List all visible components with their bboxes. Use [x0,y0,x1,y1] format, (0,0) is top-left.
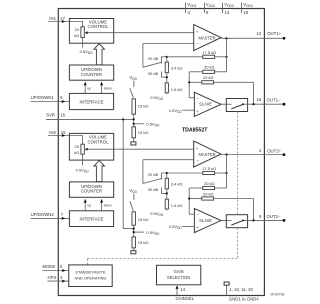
block VOLUME CONTROL 2 [69,133,113,160]
svg-text:kΩ: kΩ [74,33,79,38]
op-amp SLAVE 2 [194,209,221,233]
pin UP/DOWN1 (6) wire [31,95,70,103]
svg-text:SELECTION: SELECTION [167,275,190,280]
svg-text:1, 10, 11, 20: 1, 10, 11, 20 [229,287,253,292]
label TDA8552T [182,127,208,133]
wire master2 inverting input [143,160,194,184]
resistor 20 kOhm ch2 (slave input) [189,181,226,190]
pin IN1 (17) wire [48,16,83,27]
wire slave1 + input 0.5VDD [169,108,195,114]
wire slave2 inverting input [188,188,194,214]
svg-text:16: 16 [60,112,65,117]
arrow up (interface1 to counter1) [84,82,91,93]
wire output node down ch1 [226,38,228,72]
svg-text:20: 20 [75,27,80,32]
svg-text:GAIN: GAIN [174,269,184,274]
contact 20 dB ch1 [148,56,167,64]
svg-text:OUT1−: OUT1− [267,97,281,102]
block GAIN SELECTION [157,265,201,285]
resistor 1.6 kOhm ch1 [150,83,182,101]
resistor 3.4 kOhm ch2 [165,172,182,189]
svg-text:15 kΩ: 15 kΩ [138,240,149,245]
svg-text:20 kΩ: 20 kΩ [203,191,214,196]
pin GAINSEL (14) [176,285,195,301]
svg-text:down: down [104,86,112,90]
hollow arrow counter1 to volume1 [94,44,105,65]
svg-text:MGM788: MGM788 [270,293,284,297]
op-amp MASTER 2 [194,141,221,167]
svg-text:STANDBY/MUTE: STANDBY/MUTE [75,270,106,275]
svg-text:15 kΩ: 15 kΩ [138,104,149,109]
op-amp MASTER 1 [194,25,221,51]
drawing code [270,293,284,297]
svg-text:SLAVE: SLAVE [199,102,212,107]
svg-text:HPS: HPS [48,275,57,280]
svg-text:IN2: IN2 [49,130,56,135]
gain switch blade ch2 [143,179,161,184]
svg-text:COUNTER: COUNTER [81,72,102,77]
VDD supply switch (channel 1 reference) [129,75,137,98]
svg-text:12: 12 [256,31,261,36]
ground (ch1 divider) [131,138,136,145]
svg-text:INTERFACE: INTERFACE [79,217,103,222]
svg-text:15: 15 [61,130,66,135]
arrow down (interface1 to counter1) [100,82,112,93]
dashed control line mute switches [88,112,238,265]
pin GND1 to GND4 (1,10,11,20) [224,282,259,301]
potentiometer 20 kOhm (volume 2) [74,144,88,155]
wire pot2 wiper to master2 + input [87,148,194,150]
svg-text:30 dB: 30 dB [148,71,159,76]
svg-text:17.5 kΩ: 17.5 kΩ [202,50,216,55]
svg-text:GND1 to GND4: GND1 to GND4 [229,296,259,301]
svg-text:COUNTER: COUNTER [81,189,102,194]
potentiometer 20 kOhm (volume 1) [74,27,88,38]
resistor 1.6 kOhm ch2 [150,199,182,217]
pin IN2 (15) wire [48,130,83,144]
svg-text:20 kΩ: 20 kΩ [204,181,215,186]
svg-text:down: down [104,204,112,208]
block STANDBY/MUTE AND OPERATING [69,265,112,287]
svg-text:kΩ: kΩ [74,150,79,155]
svg-text:UP/DOWN2: UP/DOWN2 [31,212,55,217]
arrow down (interface2 to counter2) [100,199,112,211]
wire slave2 + input 0.5VDD [169,224,195,230]
wire master2 output to OUT2+ [221,148,285,156]
svg-text:30 dB: 30 dB [148,187,159,192]
svg-text:OUT1+: OUT1+ [267,31,281,36]
svg-text:20 kΩ: 20 kΩ [204,65,215,70]
wire to OUT2- [248,214,286,222]
svg-text:SLAVE: SLAVE [199,218,212,223]
resistor 3.4 kOhm ch1 [165,56,182,73]
resistor 17.5 kOhm ch2 feedback [167,166,228,175]
gain switch blade ch1 [143,62,161,67]
wire output node down ch2 [226,155,228,189]
svg-text:1.6 kΩ: 1.6 kΩ [171,87,183,92]
svg-text:SVR: SVR [46,112,55,117]
pin VDD2 (8) [205,2,216,15]
mute switch box ch1 [221,99,248,112]
block INTERFACE 2 [69,211,113,227]
svg-text:20 dB: 20 dB [148,56,159,61]
pin VDD3 (13) [223,2,234,15]
wire pot1 bottom to 0.5VDD [80,38,94,55]
resistor 15 kOhm (ch1 upper) [132,99,148,114]
pin MODE (5) wire [43,264,69,272]
resistor 15 kOhm (ch1 lower) [132,127,148,138]
chip outline TDA8552T [58,9,264,296]
svg-text:15 kΩ: 15 kΩ [138,217,149,222]
pin VDD1 (3) [186,2,197,15]
wire master1 output to OUT1+ [221,31,285,40]
svg-text:17: 17 [60,16,65,21]
node ch2 0.5VDD junction [133,225,160,237]
svg-text:20 kΩ: 20 kΩ [203,75,214,80]
hollow arrow counter2 to volume2 [94,161,105,182]
svg-text:INTERFACE: INTERFACE [79,100,103,105]
pin HPS (4) wire [48,275,69,283]
wire master1 inverting input [143,44,194,68]
resistor 15 kOhm (ch2 lower) [132,237,148,248]
svg-text:MASTER: MASTER [198,35,215,40]
svg-text:1.6 kΩ: 1.6 kΩ [171,203,183,208]
pin UP/DOWN2 (7) wire [31,212,70,220]
svg-text:GAINSEL: GAINSEL [176,296,195,301]
svg-text:18: 18 [244,10,249,15]
contact 30 dB ch2 [148,187,167,193]
node ch2 gain mid [166,189,168,199]
wire pot2 bottom to 0.5VDD [76,154,90,173]
svg-text:CONTROL: CONTROL [87,24,109,29]
mute switch box ch2 [221,215,248,228]
svg-text:MODE: MODE [43,264,56,269]
wire to OUT1- [248,97,286,105]
svg-text:20: 20 [75,144,80,149]
pin SVR (16) wire [46,112,134,119]
block UP/DOWN COUNTER 2 [69,182,113,197]
svg-text:IN1: IN1 [49,16,56,21]
pin VDD4 (18) [242,2,253,15]
svg-text:17.5 kΩ: 17.5 kΩ [202,166,216,171]
ground (ch2 divider) [131,248,136,254]
svg-text:3.4 kΩ: 3.4 kΩ [171,182,183,187]
contact 30 dB ch1 [148,71,167,77]
resistor 20 kOhm ch1 (slave input) [189,65,226,74]
node SVR junction [122,114,160,127]
svg-text:AND OPERATING: AND OPERATING [75,275,107,280]
resistor 20 kOhm ch2 (slave feedback) [189,191,253,220]
wire pot1 wiper to master1 + input [87,32,194,34]
resistor 17.5 kOhm ch1 feedback [167,50,228,59]
svg-text:UP/DOWN1: UP/DOWN1 [31,95,55,100]
svg-text:3.4 kΩ: 3.4 kΩ [171,65,183,70]
block INTERFACE 1 [69,93,113,109]
svg-text:15 kΩ: 15 kΩ [138,130,149,135]
svg-text:up: up [87,204,91,208]
resistor 15 kOhm (ch2 upper) [132,212,148,225]
arrow up (interface2 to counter2) [84,199,91,211]
block VOLUME CONTROL 1 [69,19,113,44]
wire slave1 inverting input [188,72,194,98]
svg-text:TDA8552T: TDA8552T [182,127,208,133]
svg-text:up: up [87,86,91,90]
svg-text:13: 13 [225,10,230,15]
svg-text:19: 19 [256,97,261,102]
node ch1 gain mid [166,73,168,83]
op-amp SLAVE 1 [194,92,221,116]
resistor 20 kOhm ch1 (slave feedback) [189,75,253,104]
svg-text:OUT2+: OUT2+ [267,148,281,153]
VDD supply switch (channel 2 reference) [129,188,137,211]
wire SVR to ch2 divider node [123,119,134,228]
svg-text:14: 14 [180,287,185,292]
svg-text:20 dB: 20 dB [148,172,159,177]
svg-text:OUT2−: OUT2− [267,214,281,219]
svg-text:CONTROL: CONTROL [87,139,109,144]
contact 20 dB ch2 [148,172,167,180]
block UP/DOWN COUNTER 1 [69,65,113,80]
svg-text:MASTER: MASTER [198,152,215,157]
